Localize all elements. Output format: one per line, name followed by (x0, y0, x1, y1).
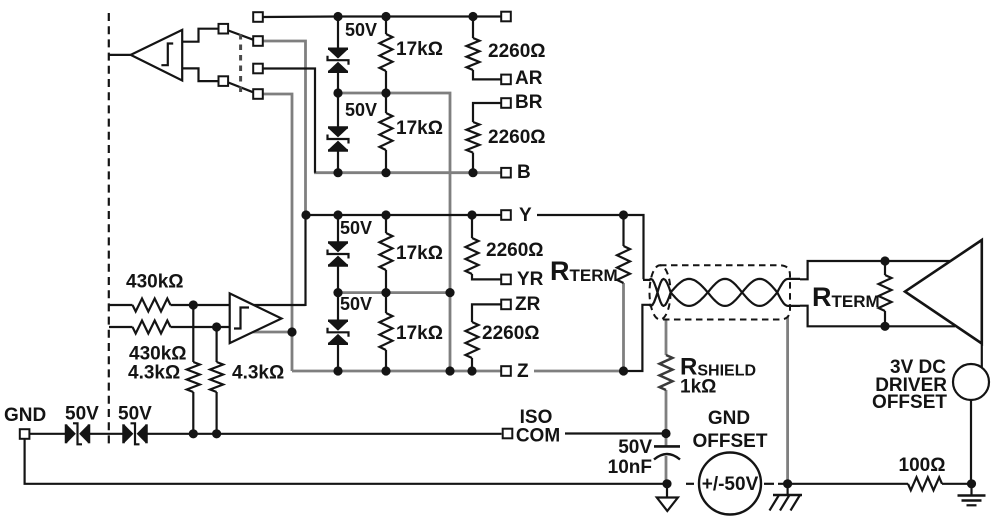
svg-text:17kΩ: 17kΩ (396, 118, 443, 139)
svg-text:50V: 50V (340, 294, 372, 314)
svg-text:2260Ω: 2260Ω (488, 127, 546, 148)
svg-text:OFFSET: OFFSET (872, 392, 947, 413)
svg-text:B: B (517, 162, 531, 183)
svg-text:430kΩ: 430kΩ (129, 344, 187, 365)
svg-text:50V: 50V (118, 404, 152, 425)
svg-text:2260Ω: 2260Ω (482, 323, 540, 344)
svg-text:COM: COM (516, 426, 560, 447)
svg-text:AR: AR (515, 68, 543, 89)
svg-text:GND: GND (708, 408, 750, 429)
svg-text:2260Ω: 2260Ω (488, 41, 546, 62)
svg-text:17kΩ: 17kΩ (396, 243, 443, 264)
svg-text:430kΩ: 430kΩ (126, 272, 184, 293)
svg-text:50V: 50V (65, 404, 99, 425)
svg-text:OFFSET: OFFSET (693, 431, 768, 452)
svg-text:BR: BR (515, 92, 543, 113)
svg-text:100Ω: 100Ω (899, 455, 946, 476)
svg-text:+/-50V: +/-50V (702, 474, 759, 495)
svg-text:4.3kΩ: 4.3kΩ (128, 363, 180, 384)
svg-text:1kΩ: 1kΩ (680, 377, 716, 398)
svg-text:2260Ω: 2260Ω (486, 240, 544, 261)
svg-text:50V: 50V (340, 218, 372, 238)
svg-text:17kΩ: 17kΩ (396, 323, 443, 344)
svg-text:YR: YR (517, 269, 544, 290)
svg-text:4.3kΩ: 4.3kΩ (232, 363, 284, 384)
svg-text:17kΩ: 17kΩ (396, 39, 443, 60)
svg-text:Y: Y (519, 205, 532, 226)
svg-text:50V: 50V (345, 20, 377, 40)
svg-text:10nF: 10nF (608, 457, 652, 478)
svg-text:Z: Z (517, 361, 529, 382)
svg-text:GND: GND (4, 405, 46, 426)
svg-text:50V: 50V (345, 100, 377, 120)
svg-text:ZR: ZR (515, 294, 541, 315)
svg-text:50V: 50V (618, 437, 652, 458)
